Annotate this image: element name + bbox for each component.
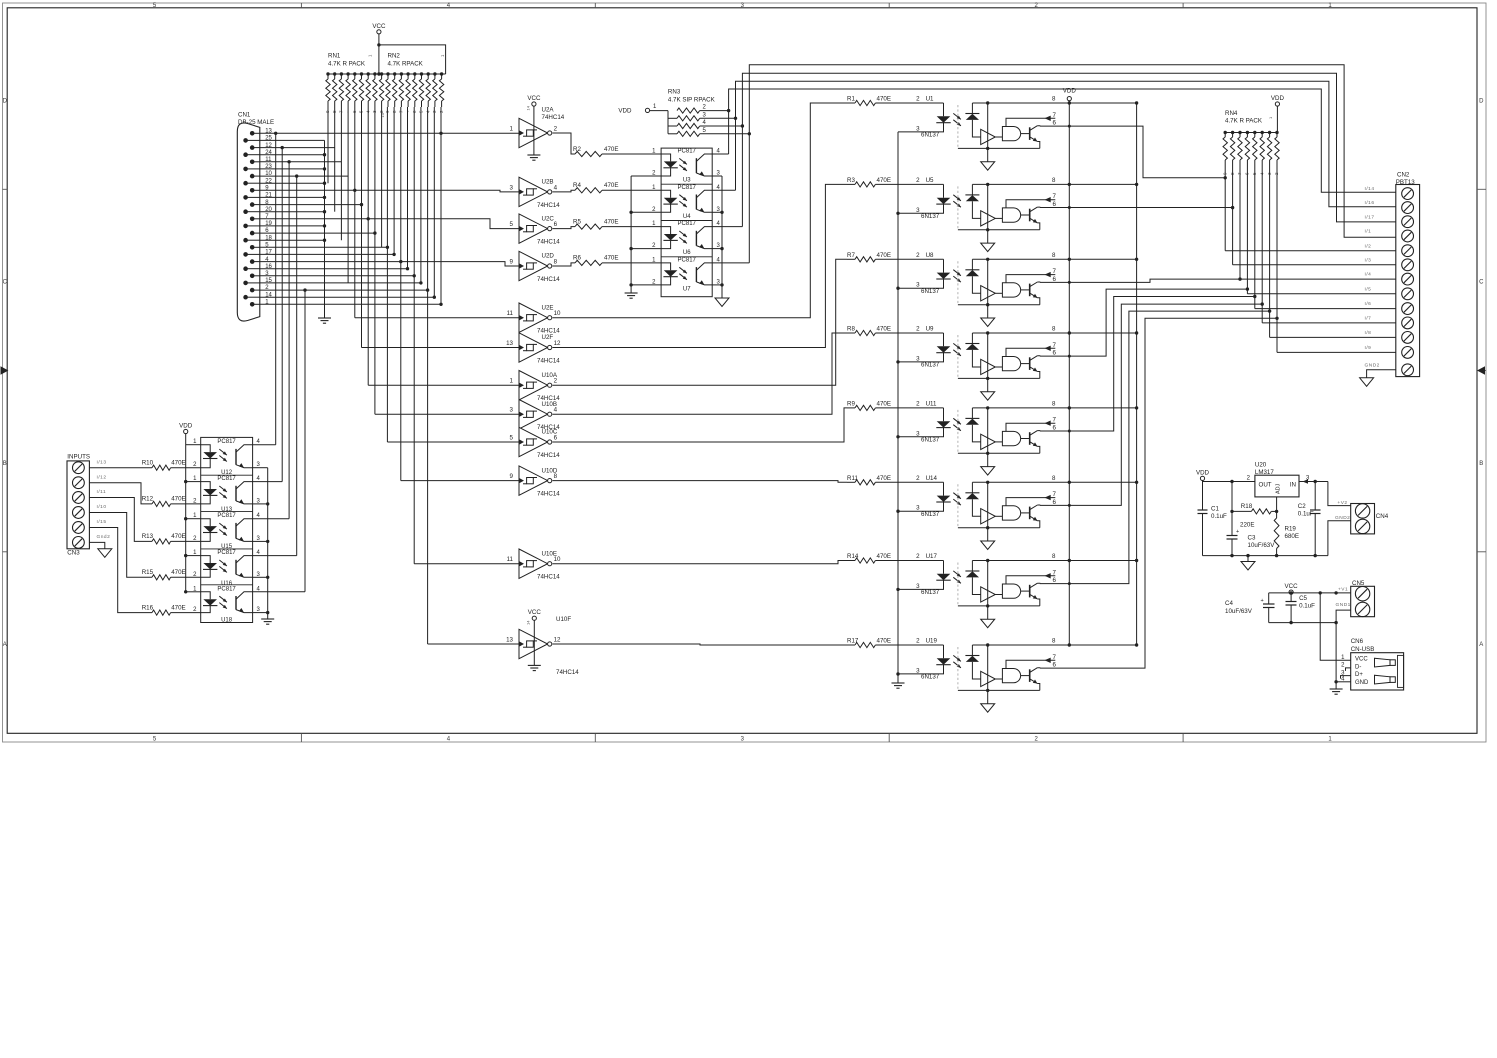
svg-text:CN6: CN6 bbox=[1351, 638, 1364, 645]
svg-text:74HC14: 74HC14 bbox=[537, 276, 560, 283]
svg-text:R3: R3 bbox=[847, 177, 855, 184]
svg-text:74HC14: 74HC14 bbox=[542, 114, 565, 121]
wire riser to U10B input bbox=[375, 413, 519, 415]
svg-text:9: 9 bbox=[510, 473, 514, 480]
ground arrow (U5) bbox=[987, 230, 989, 243]
ground rail right of PC817 block bbox=[721, 176, 723, 298]
svg-text:6: 6 bbox=[554, 221, 558, 228]
resistor R1 470E bbox=[855, 100, 875, 105]
svg-text:U2D: U2D bbox=[542, 253, 555, 260]
ground column from CN1 ground pins bbox=[324, 140, 326, 318]
svg-text:I/10: I/10 bbox=[97, 504, 107, 510]
CN2 terminal I/6 bbox=[1402, 303, 1414, 315]
svg-text:C2: C2 bbox=[1298, 503, 1306, 510]
svg-text:U2A: U2A bbox=[542, 107, 555, 114]
CN1 pin 1 bbox=[250, 302, 255, 307]
wire U8 output pin6 bbox=[1068, 281, 1071, 284]
svg-text:D: D bbox=[3, 98, 8, 104]
svg-text:13: 13 bbox=[506, 340, 513, 347]
svg-text:74HC14: 74HC14 bbox=[537, 491, 560, 498]
wire I/15 to R16 bbox=[89, 528, 152, 613]
svg-text:6N137: 6N137 bbox=[921, 362, 940, 369]
wire U3 pin4 bbox=[712, 153, 728, 155]
svg-text:R16: R16 bbox=[142, 604, 154, 611]
wire row11 bbox=[260, 161, 342, 163]
wire CN5 GND1 bbox=[1336, 610, 1351, 623]
wire second vertical rail bbox=[1136, 103, 1138, 645]
svg-text:470E: 470E bbox=[604, 218, 618, 225]
svg-text:R15: R15 bbox=[142, 569, 154, 576]
svg-text:0.1uF: 0.1uF bbox=[1211, 513, 1227, 520]
CN2 terminal I/3 bbox=[1402, 259, 1414, 271]
svg-text:A: A bbox=[1479, 642, 1483, 648]
svg-text:I/17: I/17 bbox=[1365, 214, 1375, 220]
wire U11 output pin6 bbox=[1068, 430, 1071, 433]
wire inverter output to row U1 bbox=[553, 103, 848, 318]
svg-text:10uF/63V: 10uF/63V bbox=[1248, 542, 1276, 549]
svg-text:R18: R18 bbox=[1241, 503, 1253, 510]
svg-text:470E: 470E bbox=[171, 569, 185, 576]
wire riser to U2E input bbox=[355, 317, 519, 319]
wire RN4 pin 2 to CN2 bbox=[1276, 169, 1278, 352]
svg-text:5: 5 bbox=[510, 434, 514, 441]
wire U7 pin2 to ground rail bbox=[631, 284, 661, 286]
svg-text:4.7K R PACK: 4.7K R PACK bbox=[328, 61, 366, 68]
svg-text:10: 10 bbox=[554, 310, 561, 317]
svg-text:3: 3 bbox=[916, 125, 920, 132]
resistor R11 470E bbox=[855, 480, 875, 485]
wire row15 bbox=[260, 282, 421, 284]
svg-text:R8: R8 bbox=[847, 326, 855, 333]
svg-text:U11: U11 bbox=[926, 400, 937, 407]
svg-text:I/11: I/11 bbox=[97, 489, 107, 495]
svg-text:R2: R2 bbox=[573, 146, 581, 153]
svg-text:470E: 470E bbox=[877, 96, 891, 103]
svg-text:10uF/63V: 10uF/63V bbox=[1225, 608, 1253, 615]
wire U13 pin4 to CN1 row 12 bbox=[253, 481, 283, 483]
wire RN4 pin 5 to CN2 bbox=[1254, 169, 1256, 309]
ground (PC817 pin2 rail) bbox=[625, 292, 638, 294]
ground rail left of 6N137 column bbox=[897, 132, 899, 683]
svg-text:R6: R6 bbox=[573, 255, 581, 262]
wire row12 bbox=[260, 147, 335, 149]
wire U12 pin1 from VDD rail bbox=[186, 444, 201, 446]
RN4 resistor 8 bbox=[1231, 131, 1234, 134]
svg-text:CN4: CN4 bbox=[1376, 513, 1389, 520]
ground at U10F bbox=[528, 664, 541, 666]
svg-text:470E: 470E bbox=[877, 252, 891, 259]
svg-text:I/1: I/1 bbox=[1365, 229, 1372, 235]
wire U20 ADJ bbox=[1276, 497, 1278, 512]
svg-text:IN: IN bbox=[1290, 482, 1296, 489]
svg-text:74HC14: 74HC14 bbox=[537, 202, 560, 209]
svg-text:RN4: RN4 bbox=[1225, 110, 1238, 117]
svg-text:I/16: I/16 bbox=[1365, 200, 1375, 206]
CN1 pin 6 bbox=[250, 231, 255, 236]
svg-text:4.7K SIP RPACK: 4.7K SIP RPACK bbox=[668, 96, 716, 103]
power VCC at CN5 bbox=[1289, 590, 1293, 594]
svg-text:R14: R14 bbox=[847, 553, 859, 560]
svg-text:GND2: GND2 bbox=[1335, 515, 1350, 521]
wire inverter output to row U14 bbox=[553, 481, 848, 483]
svg-text:+V2: +V2 bbox=[1337, 500, 1347, 506]
ground (CN6) bbox=[1330, 688, 1343, 690]
resistor R6 470E bbox=[553, 263, 576, 266]
svg-text:I/15: I/15 bbox=[97, 519, 107, 525]
svg-text:U6: U6 bbox=[683, 250, 691, 256]
connector CN4 bbox=[1351, 504, 1375, 534]
CN2 terminal I/14 bbox=[1402, 188, 1414, 200]
svg-text:R1: R1 bbox=[847, 96, 855, 103]
svg-text:U10C: U10C bbox=[542, 429, 558, 436]
wire U16 pin1 from VDD rail bbox=[186, 555, 201, 557]
resistor R16 470E bbox=[152, 610, 171, 615]
svg-text:I/3: I/3 bbox=[1365, 257, 1372, 263]
wire U20 IN to CN4 bbox=[1299, 481, 1328, 483]
svg-text:VCC: VCC bbox=[527, 95, 541, 102]
wire U4 pin2 to ground rail bbox=[631, 211, 661, 213]
svg-text:U1: U1 bbox=[926, 96, 934, 103]
svg-text:PC817: PC817 bbox=[217, 586, 236, 592]
svg-text:7: 7 bbox=[1053, 491, 1057, 498]
svg-text:7: 7 bbox=[1053, 569, 1057, 576]
CN1 pin 24 bbox=[243, 152, 248, 157]
svg-text:3: 3 bbox=[510, 184, 514, 191]
CN2 terminal I/2 bbox=[1402, 245, 1414, 257]
svg-text:3: 3 bbox=[916, 583, 920, 590]
wire RN4 pin 9 to CN2 bbox=[1224, 169, 1226, 251]
svg-text:I/6: I/6 bbox=[1365, 301, 1372, 307]
ground (CN1) bbox=[318, 317, 331, 319]
svg-text:I/13: I/13 bbox=[97, 459, 107, 465]
wire I/10 to R15 bbox=[89, 513, 152, 578]
svg-text:3: 3 bbox=[916, 430, 920, 437]
inverter U10B 74HC14 bbox=[519, 400, 548, 429]
wire PC817 output net 2 to CN2 bbox=[736, 81, 1396, 207]
svg-text:VCC: VCC bbox=[1355, 656, 1368, 662]
optocoupler block U12/U13/U15/U16/U18 PC817 bbox=[201, 437, 253, 622]
wire U18 pin3 to ground rail bbox=[253, 612, 268, 614]
svg-text:U2C: U2C bbox=[542, 215, 555, 222]
CN3 screw terminal bbox=[73, 492, 85, 504]
CN2 terminal I/17 bbox=[1402, 216, 1414, 228]
svg-text:6N137: 6N137 bbox=[921, 437, 940, 444]
wire VCC rail to CN5 bbox=[1269, 592, 1351, 594]
resistor R18 220E bbox=[1232, 510, 1251, 512]
svg-text:OUT: OUT bbox=[1259, 482, 1272, 489]
svg-text:PC817: PC817 bbox=[678, 221, 697, 227]
wire RN4 pin 3 to CN2 bbox=[1269, 169, 1271, 337]
RN4 resistor 5 bbox=[1253, 131, 1256, 134]
svg-text:470E: 470E bbox=[877, 638, 891, 645]
svg-text:8: 8 bbox=[1052, 553, 1056, 560]
svg-text:8: 8 bbox=[1052, 177, 1056, 184]
wire row14 bbox=[260, 296, 435, 298]
wire row18 bbox=[260, 239, 325, 241]
svg-text:B: B bbox=[3, 461, 7, 467]
svg-text:3: 3 bbox=[916, 505, 920, 512]
wire VCC to RN2 right end bbox=[377, 43, 380, 46]
svg-text:VDD: VDD bbox=[179, 423, 193, 430]
CN1 pin 15 bbox=[243, 281, 248, 286]
svg-text:D: D bbox=[1479, 98, 1484, 104]
svg-text:R10: R10 bbox=[142, 460, 154, 467]
wire inverter output to row U8 bbox=[553, 259, 848, 385]
wire CN4 GND2 bbox=[1328, 521, 1351, 556]
svg-text:U10D: U10D bbox=[542, 467, 558, 474]
wire I/12 to R12 bbox=[89, 483, 152, 504]
ground (6N137 pin3 rail) bbox=[892, 682, 905, 684]
wire riser to U2F input bbox=[362, 347, 520, 349]
wire U15 pin3 to ground rail bbox=[253, 540, 268, 542]
capacitor C4 10uF/63V bbox=[1268, 593, 1270, 604]
svg-text:7: 7 bbox=[1053, 193, 1057, 200]
svg-text:U8: U8 bbox=[926, 252, 934, 259]
svg-text:5: 5 bbox=[510, 221, 514, 228]
wire U13 pin1 from VDD rail bbox=[186, 481, 201, 483]
CN3 screw terminal bbox=[73, 522, 85, 534]
svg-text:220E: 220E bbox=[1240, 522, 1254, 529]
resistor R17 470E bbox=[855, 642, 875, 647]
svg-text:8: 8 bbox=[1052, 96, 1056, 103]
wire U6 pin2 to ground rail bbox=[631, 248, 661, 250]
CN2 terminal I/7 bbox=[1402, 317, 1414, 329]
wire row20 bbox=[260, 211, 325, 213]
svg-text:1: 1 bbox=[510, 378, 514, 385]
svg-text:VDD: VDD bbox=[1271, 95, 1285, 102]
svg-text:PC817: PC817 bbox=[678, 257, 697, 263]
wire row1 bbox=[260, 303, 441, 305]
power VCC at U2A bbox=[532, 102, 536, 106]
wire U19 output pin6 bbox=[1040, 318, 1277, 668]
resistor R15 470E bbox=[152, 575, 171, 580]
svg-text:74HC14: 74HC14 bbox=[537, 239, 560, 246]
power VCC at U10F bbox=[532, 616, 536, 620]
wire row24 bbox=[260, 154, 325, 156]
CN1 pin 17 bbox=[243, 252, 248, 257]
svg-text:2: 2 bbox=[916, 638, 920, 645]
CN1 pin 21 bbox=[243, 195, 248, 200]
svg-text:I/8: I/8 bbox=[1365, 330, 1372, 336]
wire row2 bbox=[260, 289, 428, 291]
svg-text:A: A bbox=[3, 642, 7, 648]
svg-text:U19: U19 bbox=[926, 638, 938, 645]
svg-text:D-: D- bbox=[1355, 664, 1361, 670]
CN1 pin 25 bbox=[243, 138, 248, 143]
wire U6 pin4 bbox=[712, 226, 742, 228]
svg-text:470E: 470E bbox=[171, 496, 185, 503]
ground arrow (U9) bbox=[987, 378, 989, 391]
svg-text:6N137: 6N137 bbox=[921, 674, 940, 681]
svg-text:C5: C5 bbox=[1299, 595, 1307, 602]
ground at U2A bbox=[527, 154, 540, 156]
svg-text:+: + bbox=[1261, 598, 1264, 604]
svg-text:+V1: +V1 bbox=[1338, 587, 1348, 593]
wire VDD to U20 OUT bbox=[1202, 481, 1204, 482]
svg-text:VCC: VCC bbox=[372, 23, 386, 30]
ground arrow (CN3) bbox=[98, 549, 112, 558]
inverter U2B 74HC14 bbox=[519, 177, 548, 206]
svg-text:7: 7 bbox=[1053, 268, 1057, 275]
resistor R13 470E bbox=[152, 539, 171, 544]
svg-text:RN3: RN3 bbox=[668, 89, 681, 96]
svg-text:+: + bbox=[1236, 529, 1239, 535]
svg-text:R5: R5 bbox=[573, 218, 581, 225]
svg-text:0.1uF: 0.1uF bbox=[1298, 511, 1314, 518]
wire RN4 pin 4 to CN2 bbox=[1261, 169, 1263, 323]
CN1 pin 14 bbox=[243, 295, 248, 300]
optocoupler block U3/U4/U6/U7 PC817 bbox=[661, 148, 712, 297]
RN4 resistor 9 bbox=[1224, 131, 1227, 134]
CN1 pin 19 bbox=[243, 224, 248, 229]
RN4 resistor 6 bbox=[1246, 131, 1249, 134]
inverter U2E 74HC14 bbox=[519, 303, 548, 332]
CN1 pin 8 bbox=[250, 202, 255, 207]
wire GND down to CN6 bbox=[1335, 623, 1337, 682]
svg-text:GND1: GND1 bbox=[1336, 602, 1351, 608]
ground rail right of U12-U18 bbox=[267, 468, 269, 619]
power VDD at RN4 bbox=[1275, 102, 1279, 106]
svg-text:470E: 470E bbox=[171, 460, 185, 467]
CN3 screw terminal bbox=[73, 477, 85, 489]
svg-text:C1: C1 bbox=[1211, 506, 1219, 513]
svg-text:3: 3 bbox=[916, 282, 920, 289]
RN4 resistor 7 bbox=[1238, 131, 1241, 134]
RN3 resistor 3 bbox=[668, 117, 677, 119]
svg-text:74HC14: 74HC14 bbox=[537, 358, 560, 365]
svg-text:R17: R17 bbox=[847, 638, 859, 645]
svg-text:8: 8 bbox=[1052, 326, 1056, 333]
wire riser to U10C input bbox=[387, 441, 519, 443]
resistor R8 470E bbox=[855, 330, 875, 335]
svg-text:U10E: U10E bbox=[542, 550, 557, 557]
wire row22 bbox=[260, 182, 325, 184]
inverter U10E 74HC14 bbox=[519, 549, 548, 578]
inverter U2A 74HC14 bbox=[519, 118, 548, 147]
svg-text:I/4: I/4 bbox=[1365, 272, 1372, 278]
ground arrow (CN2) bbox=[1360, 378, 1374, 387]
CN2 terminal I/4 bbox=[1402, 273, 1414, 285]
wire row25 (gnd) bbox=[260, 139, 325, 141]
wire inverter output to row U5 bbox=[553, 184, 848, 347]
svg-text:U5: U5 bbox=[926, 177, 934, 184]
wire U3 pin3 bbox=[712, 175, 722, 177]
CN1 pin 23 bbox=[243, 167, 248, 172]
capacitor C2 0.1uF bbox=[1314, 482, 1316, 511]
svg-text:12: 12 bbox=[554, 340, 561, 347]
wire U18 pin1 from VDD rail bbox=[186, 591, 201, 593]
svg-text:U10A: U10A bbox=[542, 372, 558, 379]
svg-text:PC817: PC817 bbox=[217, 513, 236, 519]
svg-text:D+: D+ bbox=[1355, 672, 1363, 678]
CN2 terminal I/8 bbox=[1402, 332, 1414, 344]
wire row5 bbox=[260, 246, 388, 248]
CN1 pin 20 bbox=[243, 209, 248, 214]
svg-text:74HC14: 74HC14 bbox=[537, 452, 560, 459]
resistor R19 680E bbox=[1274, 518, 1279, 549]
svg-text:VCC: VCC bbox=[528, 609, 542, 616]
svg-text:U18: U18 bbox=[221, 617, 233, 623]
wire U12 pin4 to CN1 row 13 bbox=[253, 444, 276, 446]
wire U4 pin4 bbox=[712, 189, 735, 191]
resistor R14 470E bbox=[855, 558, 875, 563]
inverter U10D 74HC14 bbox=[519, 466, 548, 495]
CN3 screw terminal bbox=[73, 537, 85, 549]
svg-text:U7: U7 bbox=[683, 286, 691, 292]
svg-text:3: 3 bbox=[510, 407, 514, 414]
capacitor C5 0.1uF bbox=[1290, 594, 1292, 601]
power VCC bbox=[377, 30, 381, 34]
svg-text:6N137: 6N137 bbox=[921, 288, 940, 295]
inverter U2F 74HC14 bbox=[519, 333, 548, 362]
svg-text:8: 8 bbox=[1052, 252, 1056, 259]
svg-text:U9: U9 bbox=[926, 326, 934, 333]
CN1 pin 16 bbox=[243, 266, 248, 271]
wire row3 bbox=[260, 275, 414, 277]
svg-text:VDD: VDD bbox=[1063, 88, 1077, 95]
wire row4 to U2D input bbox=[260, 262, 519, 266]
wire row21 bbox=[260, 196, 325, 198]
CN2 terminal I/1 bbox=[1402, 230, 1414, 242]
CN1 pin 7 bbox=[250, 217, 255, 222]
svg-text:R12: R12 bbox=[142, 496, 154, 503]
svg-text:GND: GND bbox=[1355, 680, 1369, 686]
svg-text:R11: R11 bbox=[847, 475, 858, 482]
svg-text:I/2: I/2 bbox=[1365, 243, 1372, 249]
svg-text:470E: 470E bbox=[604, 146, 618, 153]
power VDD at U20 bbox=[1200, 476, 1204, 480]
inverter U10A 74HC14 bbox=[519, 371, 548, 400]
svg-text:3: 3 bbox=[916, 667, 920, 674]
wire U12 pin3 to ground rail bbox=[253, 467, 268, 469]
wire U16 pin3 to ground rail bbox=[253, 576, 268, 578]
svg-text:74HC14: 74HC14 bbox=[556, 669, 579, 676]
ground arrow (PC817 pin3 rail) bbox=[715, 298, 729, 307]
wire riser to U10E input bbox=[414, 563, 519, 565]
CN1 pin 4 bbox=[250, 259, 255, 264]
RN3 resistor 5 bbox=[668, 133, 677, 135]
svg-text:470E: 470E bbox=[604, 182, 618, 189]
svg-text:U20: U20 bbox=[1255, 462, 1267, 469]
wire row10 bbox=[260, 175, 348, 177]
svg-text:2: 2 bbox=[916, 475, 920, 482]
svg-text:R19: R19 bbox=[1285, 526, 1297, 533]
svg-text:2: 2 bbox=[916, 252, 920, 259]
svg-text:8: 8 bbox=[1052, 638, 1056, 645]
wire U16 pin4 to CN1 row 10 bbox=[253, 555, 297, 557]
ground arrow (U19) bbox=[987, 690, 989, 703]
wire inverter output to row U19 bbox=[553, 644, 848, 645]
wire U15 pin1 from VDD rail bbox=[186, 518, 201, 520]
CN1 pin 22 bbox=[243, 181, 248, 186]
svg-text:11: 11 bbox=[507, 310, 514, 317]
svg-text:PC817: PC817 bbox=[678, 185, 697, 191]
resistor R12 470E bbox=[152, 501, 171, 506]
inverter U2D 74HC14 bbox=[519, 251, 548, 280]
svg-text:I/14: I/14 bbox=[1365, 186, 1375, 192]
svg-text:6N137: 6N137 bbox=[921, 589, 940, 596]
CN2 terminal I/9 bbox=[1402, 347, 1414, 359]
wire row23 bbox=[260, 168, 325, 170]
wire U18 pin4 to CN1 row 2 bbox=[253, 591, 305, 593]
wire PC817 output net 4 to CN2 bbox=[749, 65, 1396, 263]
capacitor C3 10uF/63V bbox=[1231, 482, 1233, 536]
CN2 terminal I/16 bbox=[1402, 202, 1414, 214]
wire RN4 pin 8 to CN2 bbox=[1232, 169, 1234, 265]
svg-text:470E: 470E bbox=[877, 400, 891, 407]
svg-text:8: 8 bbox=[1052, 475, 1056, 482]
svg-text:CN3: CN3 bbox=[67, 550, 80, 557]
